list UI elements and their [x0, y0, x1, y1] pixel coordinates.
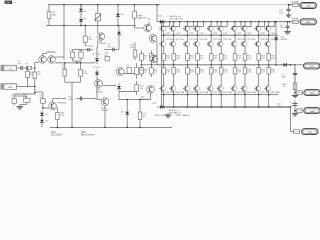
svg-text:Bias Current: Bias Current: [81, 134, 95, 137]
resistor R44: [173, 65, 175, 68]
diode D16: [280, 64, 290, 66]
wire R11-Q6: [134, 25, 136, 29]
transistor Qd5: [210, 22, 212, 26]
transistor Q6: [144, 24, 152, 32]
svg-text:2.2: 2.2: [154, 72, 157, 74]
resistor R38: [141, 65, 143, 68]
svg-text:2SC: 2SC: [228, 39, 233, 41]
transistor Q3: [49, 102, 57, 110]
svg-text:0.5W: 0.5W: [260, 33, 265, 35]
svg-text:0.47: 0.47: [247, 72, 251, 74]
wire Q2 collector: [55, 56, 64, 58]
wire rail V+ top faint: [160, 4, 289, 6]
node R14-H: [56, 127, 58, 129]
node col6 F: [220, 106, 222, 108]
node G-64: [63, 25, 65, 27]
svg-text:0.5W: 0.5W: [223, 33, 228, 35]
svg-text:MPSA42: MPSA42: [58, 102, 67, 105]
wire Q3 base: [43, 107, 49, 109]
diode D12: [157, 21, 166, 23]
ground G3: [287, 30, 289, 32]
capacitor C15: [288, 5, 290, 10]
resistor R45: [187, 53, 189, 54]
resistor R37: [141, 51, 143, 54]
node col6 B: [220, 21, 222, 23]
svg-text:0.47: 0.47: [190, 72, 194, 74]
svg-text:0.47: 0.47: [247, 58, 251, 60]
wire fb pair bot: [72, 58, 74, 61]
wire col9 tail: [258, 95, 260, 107]
capacitor C7m: [108, 49, 113, 51]
svg-text:BL9 6A z 1B: BL9 6A z 1B: [170, 18, 183, 21]
logo badge: [5, 1, 13, 4]
svg-text:0.5W: 0.5W: [213, 33, 218, 35]
node col1 D: [163, 64, 165, 66]
transistor Q15: [173, 35, 175, 41]
node col7 B: [234, 21, 236, 23]
node col3 D: [187, 64, 189, 66]
node col8 F: [244, 106, 246, 108]
node col5 D: [210, 64, 212, 66]
wire V- vertical: [294, 65, 296, 93]
resistor R51: [220, 53, 222, 54]
resistor R3: [27, 68, 29, 71]
svg-text:F1 10A: F1 10A: [292, 0, 299, 3]
capacitor C5fb: [84, 26, 86, 37]
diode D16b: [126, 100, 128, 110]
wire x64 vertical: [63, 5, 65, 60]
resistor R54: [234, 65, 236, 68]
wire col8 tail: [244, 95, 246, 107]
node col7 F: [234, 106, 236, 108]
resistor R58: [294, 80, 296, 83]
node col3 F: [187, 106, 189, 108]
wire rail left G: [46, 25, 136, 27]
wire VR1 top: [13, 96, 15, 99]
ground G7: [288, 13, 290, 15]
wire rail C: [161, 34, 278, 36]
node col9 D: [258, 64, 260, 66]
wire C12 net: [294, 101, 296, 111]
node col10 F: [268, 106, 270, 108]
transistor Q28: [244, 83, 246, 86]
wire V- drop: [290, 107, 292, 132]
node F drop: [290, 106, 292, 108]
resistor R14: [56, 108, 58, 113]
node col2 E: [173, 94, 175, 96]
svg-text:2SC: 2SC: [180, 39, 185, 41]
transistor Q27: [244, 35, 246, 41]
resistor R9: [64, 63, 66, 69]
diode D6: [117, 5, 119, 26]
wire Q12 down: [104, 105, 106, 127]
wire Q3 emitter: [56, 107, 57, 109]
node col7 C: [234, 34, 236, 36]
capacitor C6: [287, 22, 289, 24]
resistor R11: [134, 5, 136, 11]
connector P1: [300, 3, 317, 9]
diode D10: [118, 84, 120, 92]
wire out-P3: [295, 64, 304, 66]
wire gnd node down: [34, 87, 36, 93]
node col3 B: [187, 21, 189, 23]
transistor Q16: [173, 83, 175, 86]
node col8 D: [244, 64, 246, 66]
wire col6 tail: [220, 95, 222, 107]
transistor Q32: [268, 83, 270, 86]
capacitor C4: [41, 99, 46, 103]
diode D14: [275, 22, 277, 35]
wire rail D left ext: [142, 64, 158, 66]
capacitor C3: [80, 63, 82, 69]
transistor Qd2: [173, 22, 175, 26]
transistor Q1: [39, 56, 47, 64]
transistor Q22: [210, 83, 212, 86]
wire Q4 emitter: [97, 40, 99, 47]
transistor Q9: [150, 55, 158, 63]
svg-text:0.47: 0.47: [271, 58, 275, 60]
svg-text:0.5W: 0.5W: [189, 33, 194, 35]
node G-81: [80, 25, 82, 27]
svg-text:2SA: 2SA: [180, 91, 185, 94]
node col8 B: [244, 21, 246, 23]
capacitor C9f: [84, 49, 88, 51]
node out: [294, 64, 296, 66]
fuse F4: [297, 91, 303, 95]
node input: [34, 67, 36, 69]
svg-text:12W: 12W: [5, 0, 11, 4]
resistor R52: [220, 65, 222, 68]
transistor Qd9: [258, 22, 260, 26]
svg-text:C9 100p: C9 100p: [85, 45, 93, 47]
wire V+ to driver rail: [156, 5, 158, 22]
connector P2: [300, 19, 317, 25]
capacitor C5z: [294, 68, 296, 73]
connector P5: [304, 108, 320, 114]
transistor Q12: [101, 98, 109, 106]
node col6 C: [220, 34, 222, 36]
resistor R2: [48, 5, 50, 12]
node A-97: [97, 4, 99, 6]
resistor R46: [187, 65, 189, 68]
wire rail E: [161, 94, 278, 96]
svg-text:OUT: OUT: [309, 66, 314, 68]
wire col2 tail: [173, 95, 175, 107]
svg-text:0.47: 0.47: [271, 72, 275, 74]
svg-text:0.47: 0.47: [224, 58, 228, 60]
capacitor C8: [76, 98, 80, 100]
svg-text:0.5W: 0.5W: [237, 33, 242, 35]
wire Q6 up: [148, 22, 150, 25]
svg-text:0.47: 0.47: [166, 58, 170, 60]
svg-text:0.47: 0.47: [166, 72, 170, 74]
node col1 B: [163, 21, 165, 23]
ground G1: [19, 105, 21, 107]
svg-text:0.47: 0.47: [176, 58, 180, 60]
node col10 D: [268, 64, 270, 66]
wire fb pair top: [72, 50, 74, 53]
transistor Qd10: [268, 22, 270, 26]
resistor R59: [268, 53, 270, 54]
wire fb to Q2 base: [55, 62, 95, 64]
svg-text:100n: 100n: [282, 77, 286, 79]
node col6 E: [220, 94, 222, 96]
transistor Qd3: [187, 22, 189, 26]
wire D7 chain: [96, 47, 98, 56]
capacitor C12: [292, 103, 297, 105]
node col9 B: [258, 21, 260, 23]
transistor Q20: [197, 83, 199, 86]
svg-text:0.47: 0.47: [261, 58, 265, 60]
node col4 D: [197, 64, 199, 66]
node col2 F: [173, 106, 175, 108]
capacitor C10: [105, 57, 110, 61]
resistor R47: [197, 53, 199, 54]
svg-text:0.47: 0.47: [214, 72, 218, 74]
svg-text:100n: 100n: [69, 99, 73, 101]
connector J1 IN: [1, 65, 17, 71]
node col2 D: [173, 64, 175, 66]
node col5 F: [210, 106, 212, 108]
svg-text:2.2: 2.2: [144, 72, 147, 74]
wire Q7 down: [156, 41, 158, 65]
svg-text:0.47: 0.47: [261, 72, 265, 74]
svg-text:GND: GND: [306, 22, 311, 24]
wire VR3-Q4: [97, 21, 99, 33]
svg-text:2SA: 2SA: [275, 91, 280, 94]
capacitor C7fb: [70, 52, 74, 58]
resistor R1: [25, 67, 27, 69]
svg-text:0.47: 0.47: [237, 72, 241, 74]
wire rail B: [158, 21, 290, 23]
diode D3: [80, 5, 82, 16]
svg-text:0.47: 0.47: [200, 58, 204, 60]
wire col10 tail: [268, 95, 270, 107]
node A-118: [117, 4, 119, 6]
svg-text:-70V: -70V: [307, 132, 312, 134]
svg-text:+70V: +70V: [306, 6, 312, 8]
transistor Q31: [268, 35, 270, 41]
resistor R42: [163, 65, 165, 68]
svg-text:2SC: 2SC: [251, 39, 256, 41]
svg-text:0.47: 0.47: [214, 58, 218, 60]
wire driver emitter bus: [118, 91, 120, 100]
transistor Q30: [258, 83, 260, 86]
ground G6: [294, 112, 296, 114]
transistor Q11: [147, 86, 155, 94]
wire rail bottom H: [50, 126, 172, 128]
resistor R40: [151, 65, 153, 68]
wire left net: [35, 91, 43, 93]
wire rail V- F: [161, 106, 291, 108]
wire F1-P1: [299, 4, 301, 6]
node A-134: [134, 4, 136, 6]
svg-text:PNP: 2SA1943: PNP: 2SA1943: [176, 114, 191, 117]
resistor R49: [210, 53, 212, 54]
node col10 B: [268, 21, 270, 23]
transistor Q2: [48, 56, 56, 64]
diode D15: [157, 106, 166, 108]
resistor R53: [234, 53, 236, 54]
svg-text:100u: 100u: [277, 106, 281, 108]
connector J2 GND: [1, 84, 17, 90]
wire C5fb down: [84, 43, 86, 47]
trimmer VR3: [97, 5, 99, 14]
svg-text:100n: 100n: [280, 27, 284, 29]
node col10 E: [268, 94, 270, 96]
svg-text:MR856: MR856: [281, 39, 288, 41]
node col7 D: [234, 64, 236, 66]
wire D2 bottom: [41, 125, 43, 128]
transistor Q25: [234, 35, 236, 41]
resistor R56: [244, 65, 246, 68]
resistor R43: [173, 53, 175, 54]
svg-text:0.47: 0.47: [237, 58, 241, 60]
transistor Q21: [210, 35, 212, 41]
transistor Q19: [197, 35, 199, 41]
wire col7 tail: [234, 95, 236, 107]
transistor Qd7: [234, 22, 236, 26]
node P5 tap: [294, 110, 296, 112]
node col9 C: [258, 34, 260, 36]
node col5 B: [210, 21, 212, 23]
connector P6: [302, 129, 319, 135]
wire base bus vertical: [161, 22, 163, 107]
node col8 E: [244, 94, 246, 96]
transistor Q23: [220, 35, 222, 41]
wire mid vert: [134, 42, 136, 47]
node col8 C: [244, 34, 246, 36]
wire rail V+ top: [48, 4, 160, 6]
resistor R58: [258, 65, 260, 68]
capacitor C2: [12, 99, 17, 103]
transistor Q10: [95, 80, 103, 88]
svg-text:NPN: 2SC5200: NPN: 2SC5200: [155, 115, 170, 117]
transistor Q29: [258, 35, 260, 41]
wire Q12 base: [96, 78, 98, 100]
resistor R48: [197, 65, 199, 68]
svg-text:GND: GND: [8, 87, 13, 89]
diode D1: [41, 111, 43, 118]
resistor R17: [136, 63, 138, 68]
capacitor C9m: [127, 68, 131, 74]
wire C8 left: [52, 99, 54, 103]
node col4 C: [197, 34, 199, 36]
svg-text:GND: GND: [310, 93, 315, 95]
resistor R15: [134, 47, 136, 50]
transistor Q26: [234, 83, 236, 86]
node railA right: [289, 4, 291, 6]
svg-text:0.47: 0.47: [224, 72, 228, 74]
potentiometer VR1: [24, 98, 30, 102]
fuse F1: [290, 4, 292, 6]
resistor R41: [163, 53, 165, 54]
wire base T1: [34, 63, 36, 69]
transistor Q7: [149, 35, 157, 43]
transistor Q24: [220, 83, 222, 86]
wire D3 top: [80, 5, 82, 8]
wire C8 right: [86, 98, 96, 100]
node col9 F: [258, 106, 260, 108]
wire J2 out: [17, 86, 35, 88]
wire D8 net: [118, 26, 120, 29]
svg-text:2N5551: 2N5551: [140, 18, 148, 20]
svg-text:2.2: 2.2: [154, 58, 157, 60]
resistor R55: [244, 53, 246, 54]
svg-text:0.47: 0.47: [200, 72, 204, 74]
connector P4: [304, 90, 320, 96]
node col1 F: [163, 106, 165, 108]
resistor R39: [151, 51, 153, 54]
transistor Q18: [187, 83, 189, 86]
node col3 E: [187, 94, 189, 96]
svg-text:0.47: 0.47: [176, 72, 180, 74]
svg-text:D9 5.1V: D9 5.1V: [93, 67, 101, 69]
wire Q8 emitter right: [124, 73, 136, 75]
node col3 C: [187, 34, 189, 36]
node col10 C: [268, 34, 270, 36]
svg-text:220u: 220u: [83, 73, 87, 75]
svg-text:0.5W: 0.5W: [175, 33, 180, 35]
svg-text:100n: 100n: [279, 13, 283, 15]
resistor R57: [258, 53, 260, 54]
wire col1 tail: [163, 95, 165, 107]
node col6 D: [220, 64, 222, 66]
svg-text:DC Offset: DC Offset: [51, 134, 62, 137]
node railB right: [289, 21, 291, 23]
transistor Qd1: [163, 22, 165, 26]
svg-text:0.5W: 0.5W: [247, 33, 252, 35]
fuse F3: [294, 130, 300, 134]
resistor R50: [210, 65, 212, 68]
node col2 C: [173, 34, 175, 36]
wire col3 tail: [187, 95, 189, 107]
transistor Q8: [116, 68, 124, 76]
zener D7: [96, 56, 98, 64]
transistor Q13: [163, 35, 165, 41]
diode D2: [41, 118, 43, 125]
transistor Qd4: [197, 22, 199, 26]
wire J1 out: [17, 67, 19, 69]
wire rail output D: [157, 64, 295, 66]
wire mid low: [150, 93, 152, 100]
node col1 C: [163, 34, 165, 36]
svg-text:10K: 10K: [52, 15, 56, 17]
svg-text:MPSA42: MPSA42: [47, 51, 57, 54]
node col4 F: [197, 106, 199, 108]
fuse F5: [297, 109, 303, 113]
transistor Qd6: [220, 22, 222, 26]
svg-text:0.5W: 0.5W: [165, 33, 170, 35]
ground G4b: [294, 93, 296, 95]
diode D4: [80, 15, 82, 25]
node col4 E: [197, 94, 199, 96]
resistor R60: [268, 65, 270, 68]
resistor R16: [139, 122, 141, 127]
node P4 tap: [294, 92, 296, 94]
node rail-A/R2: [63, 4, 65, 6]
wire Q1 top: [42, 54, 44, 56]
wire col5 tail: [210, 95, 212, 107]
wire col4 tail: [197, 95, 199, 107]
wire Q10 right: [103, 85, 117, 87]
svg-text:0.47: 0.47: [190, 58, 194, 60]
wire fb divider bottom: [65, 81, 81, 83]
capacitor C1: [19, 67, 21, 69]
node col5 C: [210, 34, 212, 36]
resistor R19: [136, 81, 138, 85]
svg-text:2SA: 2SA: [204, 91, 209, 94]
